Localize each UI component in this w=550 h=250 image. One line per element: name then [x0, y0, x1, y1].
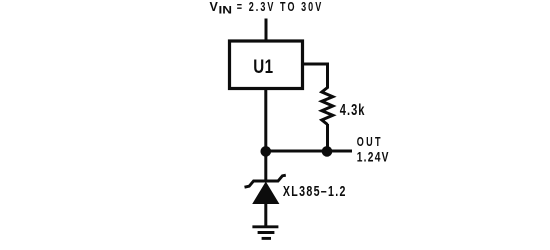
op-amp / regulator U1 box: [230, 41, 303, 89]
wire VIN to U1 top: [265, 19, 268, 43]
wire resistor bottom to OUT node: [326, 124, 329, 151]
zener diode D1 anode triangle: [252, 182, 279, 205]
svg-text:OUT: OUT: [357, 136, 383, 150]
wire U1 right pin to resistor top: [303, 64, 328, 89]
wire U1 bottom to node: [264, 89, 267, 152]
wire node to zener cathode: [264, 151, 267, 181]
svg-text:1.24V: 1.24V: [357, 149, 390, 165]
junction dot at resistor/OUT: [322, 146, 333, 157]
svg-text:XL385–1.2: XL385–1.2: [283, 182, 347, 199]
ground symbol: [252, 227, 278, 239]
svg-text:U1: U1: [253, 55, 273, 77]
svg-text:IN: IN: [219, 4, 233, 16]
svg-text:= 2.3V TO 30V: = 2.3V TO 30V: [237, 0, 323, 14]
svg-text:V: V: [210, 0, 219, 14]
wire OUT horizontal: [266, 150, 352, 153]
zener diode D1 cathode bar: [245, 175, 286, 187]
wire zener anode to ground: [264, 203, 267, 227]
junction dot at diode branch: [261, 146, 272, 157]
svg-text:4.3k: 4.3k: [340, 101, 366, 118]
resistor R1 4.3k: [322, 88, 333, 125]
net label VIN = 2.3V TO 30V: [210, 0, 324, 16]
